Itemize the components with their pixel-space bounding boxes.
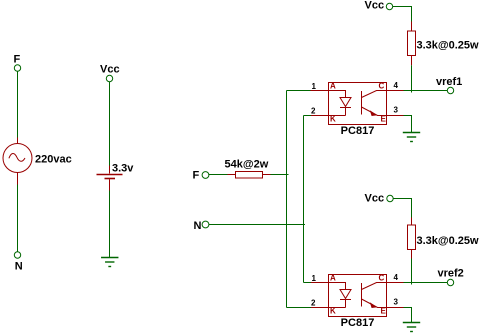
svg-text:vref1: vref1: [436, 76, 462, 88]
svg-text:220vac: 220vac: [35, 154, 72, 166]
svg-text:PC817: PC817: [341, 125, 375, 137]
svg-text:3.3k@0.25w: 3.3k@0.25w: [417, 235, 480, 247]
svg-text:Vcc: Vcc: [365, 0, 385, 12]
svg-text:54k@2w: 54k@2w: [225, 159, 269, 171]
svg-text:3.3k@0.25w: 3.3k@0.25w: [417, 40, 480, 52]
svg-text:F: F: [193, 170, 200, 182]
svg-text:PC817: PC817: [341, 317, 375, 329]
svg-text:Vcc: Vcc: [100, 64, 120, 76]
svg-text:N: N: [15, 261, 23, 273]
svg-text:Vcc: Vcc: [365, 193, 385, 205]
svg-text:3.3v: 3.3v: [112, 163, 134, 175]
svg-text:F: F: [14, 54, 21, 66]
svg-text:N: N: [194, 220, 202, 232]
svg-text:vref2: vref2: [438, 268, 464, 280]
